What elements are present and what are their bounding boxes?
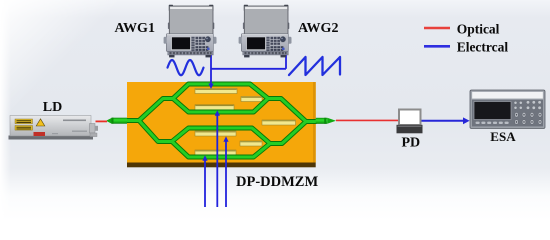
electrode E1 (top MZM upper arm) (195, 89, 237, 94)
chip right edge shading (313, 82, 316, 163)
wire AWG1 down to electrode E1 (210, 54, 212, 86)
svg-text:LD: LD (43, 100, 62, 115)
input fiber connector (green) (106, 118, 127, 124)
legend red line (424, 27, 450, 30)
PD photodetector (397, 110, 423, 134)
legend blue line (424, 45, 450, 48)
svg-text:Electrcal: Electrcal (457, 39, 509, 54)
bias wire 1 (204, 158, 206, 207)
bias wire 3 (225, 139, 227, 207)
wire AWG2 down (285, 54, 287, 69)
yellow warning labels (15, 119, 33, 124)
electrode E5 (bottom MZM upper arm) (195, 131, 236, 136)
arrowhead into E6 (up) (202, 155, 207, 161)
chip DP-DDMZM body (top face) (127, 82, 316, 163)
red label (34, 132, 46, 136)
electrode E6 (bottom MZM lower arm) (195, 150, 236, 155)
chip bottom side face (127, 163, 316, 168)
LD module (9, 116, 99, 140)
electrode E4 (output section) (262, 120, 296, 125)
right connector (90, 124, 96, 134)
AWG1 instrument (164, 5, 217, 58)
arrowhead into E1 (down) (208, 84, 213, 90)
ESA spectrum analyzer (470, 90, 545, 129)
output fiber connector (green) (316, 118, 336, 124)
laser beam LD to fiber (red) (96, 120, 108, 122)
electrode E3 (top MZM short right) (241, 97, 262, 102)
waveguide network (127, 84, 316, 157)
svg-text:AWG2: AWG2 (298, 21, 338, 36)
optical line modulator to PD (red) (336, 119, 400, 121)
warning triangle (36, 119, 45, 126)
electrode E7 (bottom MZM short right) (240, 141, 262, 146)
under-screen buttons (476, 122, 509, 124)
svg-text:DP-DDMZM: DP-DDMZM (236, 174, 318, 190)
arrowhead into E5 (up) (223, 136, 228, 142)
svg-text:AWG1: AWG1 (115, 21, 155, 36)
waveguide core (bright green) (127, 84, 316, 157)
svg-text:PD: PD (402, 135, 421, 150)
waveguide outline (dark green) (127, 84, 316, 157)
right button field (514, 101, 541, 110)
electrode E2 (top MZM lower arm) (195, 105, 234, 110)
bias wire 2 (216, 113, 218, 207)
screen (474, 102, 511, 120)
wire horizontal joining (211, 68, 286, 70)
svg-text:Optical: Optical (457, 21, 500, 36)
AWG2 instrument (239, 5, 292, 58)
sine waveform (AWG1 output) (168, 60, 204, 75)
sawtooth waveform (AWG2 output) (289, 57, 340, 75)
arrowhead into E2 (up) (215, 110, 220, 116)
svg-text:ESA: ESA (490, 129, 516, 144)
panel markings (63, 120, 86, 122)
electrical line PD to ESA (blue, arrow) (421, 120, 465, 122)
